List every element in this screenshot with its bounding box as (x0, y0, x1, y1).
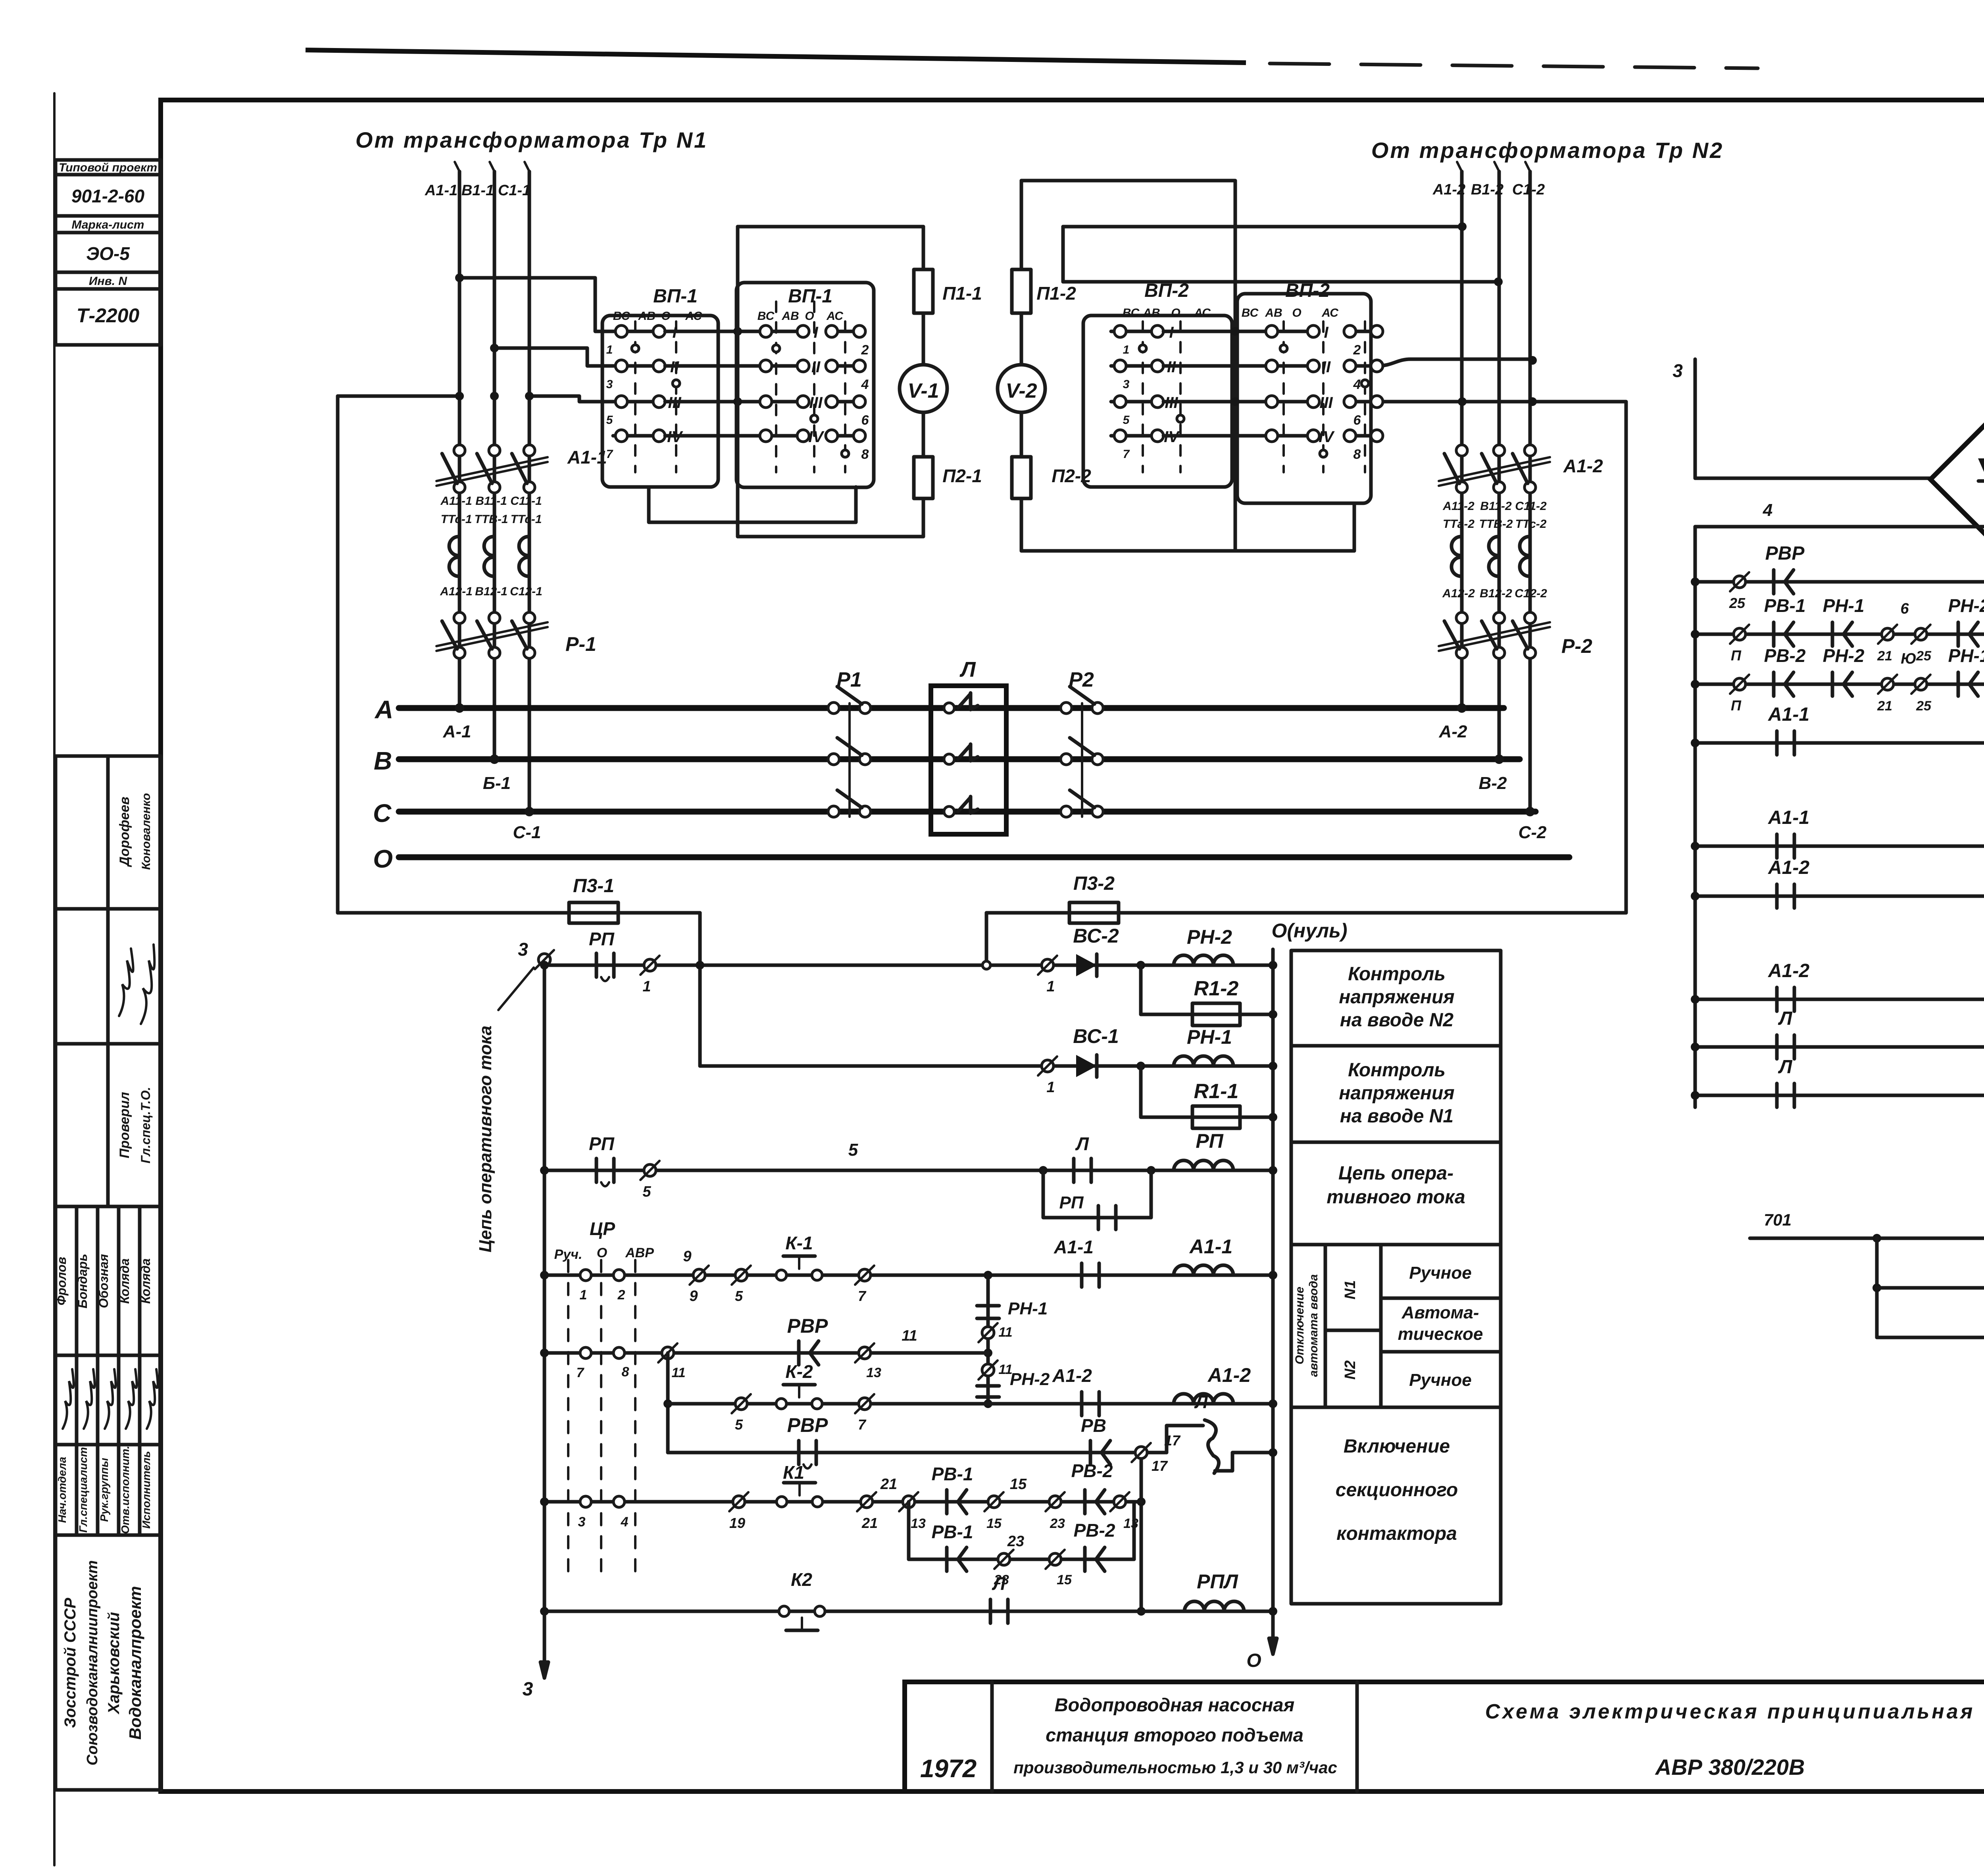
stamp signature (63, 1369, 74, 1429)
svg-text:В: В (374, 747, 392, 775)
rectifier bridge VS (1930, 422, 1984, 537)
disconnect R-1 pole C (524, 612, 535, 623)
svg-text:А1-2: А1-2 (1563, 456, 1603, 476)
svg-text:А1-2: А1-2 (1768, 960, 1809, 981)
svg-text:контактора: контактора (1336, 1523, 1457, 1544)
svg-text:3: 3 (578, 1514, 586, 1530)
svg-text:АВ: АВ (781, 310, 799, 323)
V-1 loop top wire (738, 225, 923, 229)
contactor L box (931, 686, 1006, 834)
disconnect R-2 linkage bar (1439, 622, 1550, 646)
svg-text:1: 1 (580, 1287, 587, 1303)
svg-text:РН-2: РН-2 (1948, 595, 1984, 616)
svg-text:РВР: РВР (1765, 543, 1805, 564)
svg-text:С12-2: С12-2 (1515, 587, 1547, 600)
testpoint 21 row8 (861, 1496, 873, 1508)
svg-text:Дорофеев: Дорофеев (117, 797, 132, 867)
svg-text:автомата ввода: автомата ввода (1307, 1274, 1320, 1377)
branch riser R1-1 (1139, 1066, 1143, 1117)
VP-2a deck row IV (1111, 434, 1157, 438)
svg-text:В1-1: В1-1 (461, 182, 494, 199)
testpoint 23 row8b (998, 1553, 1010, 1565)
P2 linkage (1081, 703, 1083, 817)
svg-text:АВ: АВ (1265, 306, 1282, 319)
feeder2 wire top ticks (1457, 162, 1462, 171)
svg-text:8: 8 (622, 1364, 629, 1380)
svg-text:Харьковский: Харьковский (105, 1612, 123, 1714)
subtable right divider 1 (1381, 1297, 1501, 1300)
disconnect R-1 linkage bar (436, 622, 548, 646)
svg-text:В11-2: В11-2 (1480, 500, 1512, 513)
svg-text:Обозная: Обозная (96, 1254, 111, 1308)
disconnect R-2 pole C (1525, 612, 1536, 623)
disconnect R-2 pole B (1494, 612, 1505, 623)
svg-text:Включение: Включение (1344, 1436, 1450, 1457)
svg-text:ВП-2: ВП-2 (1285, 280, 1330, 301)
svg-text:А12-2: А12-2 (1442, 587, 1475, 600)
svg-text:5: 5 (642, 1183, 651, 1200)
relay coil RN-2 (1174, 955, 1233, 965)
svg-text:А-2: А-2 (1439, 722, 1467, 741)
testpoint 19 (733, 1496, 745, 1508)
diode VS-2 (1076, 954, 1097, 976)
L solenoid out wire (1215, 1453, 1273, 1471)
stamp name column divider (117, 1206, 121, 1535)
svg-text:4: 4 (1763, 500, 1773, 520)
svg-text:Л: Л (1075, 1133, 1089, 1154)
svg-text:ТТа-2: ТТа-2 (1443, 518, 1475, 531)
svg-text:А12-1: А12-1 (440, 585, 473, 598)
stamp signature (126, 1369, 137, 1429)
rail O bottom arrow (1269, 1638, 1277, 1654)
feeder1 phase wire A1-1 (458, 171, 461, 708)
testpoint 11 row5 (662, 1347, 674, 1359)
svg-text:ЭО-5: ЭО-5 (86, 243, 130, 264)
testpoint 13 row5 (859, 1347, 871, 1359)
svg-text:Т-2200: Т-2200 (77, 304, 140, 327)
subtable N col divider (1379, 1245, 1383, 1407)
breaker A1-2 pole A (1456, 445, 1467, 456)
selector dashed columns (567, 1260, 569, 1582)
rail 3 left (543, 960, 546, 1678)
disconnect R-1 pole A (454, 612, 465, 623)
svg-text:Гл.специалист: Гл.специалист (77, 1447, 89, 1533)
svg-text:ЦР: ЦР (590, 1218, 615, 1239)
svg-text:6: 6 (861, 413, 869, 428)
feeder1 wire top ticks (455, 162, 459, 171)
contactor L contact (944, 703, 954, 713)
button K-2 (776, 1399, 786, 1409)
fuse P3-1 (569, 902, 618, 923)
svg-text:3: 3 (523, 1679, 533, 1700)
svg-text:Ручное: Ручное (1409, 1370, 1471, 1390)
contact RV-1 row8b (945, 1547, 949, 1571)
svg-text:В1-2: В1-2 (1471, 181, 1503, 198)
svg-text:7: 7 (858, 1288, 867, 1304)
bus O (399, 854, 1569, 860)
stamp name column divider (96, 1206, 100, 1535)
svg-text:Рук.группы: Рук.группы (98, 1458, 110, 1522)
svg-text:тивного тока: тивного тока (1327, 1187, 1465, 1208)
svg-text:на вводе N1: на вводе N1 (1340, 1106, 1453, 1127)
svg-text:Цепь оперативного тока: Цепь оперативного тока (476, 1026, 495, 1253)
V-1 loop bottom wire (738, 535, 923, 539)
breaker A1-2 pole B (1494, 445, 1505, 456)
svg-text:Л: Л (959, 658, 976, 681)
breaker A1-1 pole C (524, 445, 535, 456)
svg-text:ВП-1: ВП-1 (653, 286, 698, 307)
svg-text:7: 7 (1123, 448, 1130, 461)
svg-text:Отв.исполнит.: Отв.исполнит. (119, 1446, 131, 1534)
svg-text:I: I (813, 324, 818, 341)
RN branch vertical (986, 1275, 990, 1404)
bus C (399, 809, 1536, 815)
subtable right divider 2 (1381, 1350, 1501, 1354)
row8b wire (909, 1558, 1134, 1561)
svg-text:станция второго подъема: станция второго подъема (1046, 1724, 1303, 1745)
left table divider (56, 214, 161, 218)
svg-text:901-2-60: 901-2-60 (71, 186, 145, 206)
svg-text:2: 2 (861, 342, 869, 358)
svg-text:7: 7 (577, 1365, 585, 1380)
svg-text:ВП-1: ВП-1 (788, 286, 832, 307)
svg-text:Р-2: Р-2 (1561, 635, 1592, 657)
RV branch risers (907, 1502, 911, 1559)
svg-text:23: 23 (1007, 1533, 1024, 1550)
row3 wire (544, 1169, 1273, 1172)
row2b wire (1141, 1116, 1273, 1119)
svg-text:С-1: С-1 (513, 823, 541, 842)
svg-text:Контроль: Контроль (1348, 1060, 1446, 1081)
feeder2 loop step wire (1061, 227, 1065, 282)
svg-text:От трансформатора Тр N2: От трансформатора Тр N2 (1371, 138, 1724, 163)
svg-text:АВ: АВ (1142, 306, 1160, 319)
ladder row 7 wire A1-2 R2-2 RV-2 (1695, 895, 1984, 898)
VP-1b dashed columns (775, 302, 777, 472)
block VP-2b enclosure (1237, 294, 1371, 503)
P1 contact (828, 754, 839, 765)
svg-text:АВР: АВР (625, 1245, 654, 1260)
svg-text:13: 13 (1123, 1516, 1138, 1531)
svg-text:2: 2 (617, 1287, 625, 1303)
svg-text:25: 25 (1916, 648, 1932, 664)
svg-text:Зосстрой СССР: Зосстрой СССР (62, 1598, 79, 1728)
svg-text:25: 25 (1916, 698, 1932, 714)
svg-text:R1-1: R1-1 (1194, 1080, 1239, 1103)
breaker A1-1 pole A (454, 445, 465, 456)
button K1 (777, 1497, 787, 1507)
svg-text:РВ: РВ (1081, 1415, 1106, 1436)
svg-text:ВС: ВС (1123, 306, 1140, 319)
svg-text:IV: IV (808, 428, 825, 446)
svg-text:О: О (1246, 1650, 1261, 1671)
svg-text:ВС-2: ВС-2 (1073, 925, 1119, 947)
svg-text:тическое: тическое (1398, 1324, 1483, 1344)
svg-text:О: О (597, 1245, 607, 1260)
P3-1 drop wire (698, 913, 702, 1066)
disconnect R-1 pole B (489, 612, 500, 623)
VP-2a small column marks (1139, 345, 1146, 352)
svg-text:С: С (373, 799, 392, 827)
stamp divider (56, 1534, 161, 1537)
svg-text:В12-2: В12-2 (1480, 587, 1512, 600)
svg-text:R1-2: R1-2 (1194, 977, 1239, 1000)
svg-text:Л: Л (1778, 1056, 1793, 1077)
svg-text:Водопроводная насосная: Водопроводная насосная (1055, 1694, 1295, 1715)
svg-text:23: 23 (1050, 1516, 1065, 1531)
svg-text:3: 3 (1673, 360, 1683, 381)
fuse wire P3-1 (338, 911, 700, 915)
svg-text:А11-2: А11-2 (1442, 500, 1475, 513)
svg-text:1: 1 (1046, 978, 1055, 995)
svg-text:Л: Л (1778, 1008, 1793, 1029)
svg-text:О(нуль): О(нуль) (1272, 920, 1348, 942)
node B-2 (1494, 754, 1504, 764)
svg-text:6: 6 (1353, 413, 1361, 428)
operative tap left drop wire (336, 396, 340, 913)
testpoint 15 row8 (988, 1496, 1000, 1508)
svg-text:РВР: РВР (787, 1315, 828, 1337)
ladder row 9 wire A1-2 lamp LO-2 (1695, 998, 1984, 1001)
node C-1 (525, 807, 534, 816)
VP-2b deck row II (1163, 364, 1313, 368)
svg-text:Бондарь: Бондарь (75, 1254, 90, 1308)
alarm row2 wire (1877, 1286, 1984, 1290)
VP-1a deck row II (613, 364, 659, 368)
VP-1 bottom tie wire (649, 487, 856, 522)
svg-text:О: О (805, 310, 814, 323)
VP-1a dashed columns (634, 321, 636, 472)
svg-text:Гл.спец.Т.О.: Гл.спец.Т.О. (138, 1087, 153, 1164)
svg-text:V-1: V-1 (908, 379, 939, 402)
row5 wire (544, 1351, 988, 1355)
ladder row 11 wire L lamp LO (1695, 1094, 1984, 1097)
relay coil RP (1174, 1160, 1233, 1170)
svg-text:III: III (1319, 394, 1333, 412)
svg-text:П1-1: П1-1 (942, 283, 982, 304)
testpoint 13b row8 (1114, 1496, 1126, 1508)
svg-text:РП: РП (1059, 1193, 1084, 1212)
CT2 C phase (1520, 537, 1529, 556)
feeder2 phase wire C1-2 (1528, 171, 1532, 812)
svg-text:21: 21 (880, 1476, 897, 1493)
svg-text:ТТВ-1: ТТВ-1 (475, 513, 508, 526)
wire fuse P1-1 to top (922, 227, 925, 269)
net 3 stub wire (1694, 359, 1697, 478)
title divider 2 (1355, 1682, 1359, 1791)
left table divider (56, 173, 161, 177)
svg-text:Ручное: Ручное (1409, 1263, 1471, 1283)
svg-text:РН-2: РН-2 (1823, 645, 1865, 666)
svg-text:А: А (374, 695, 393, 724)
stamp divider (56, 1354, 161, 1357)
pointer line to rail 3 (498, 968, 534, 1010)
breaker A1-2 linkage bar (1439, 457, 1550, 481)
AC wire left to bridge (1695, 477, 1930, 480)
testpoint 7 row4 (859, 1269, 871, 1281)
voltmeter V-1 (900, 365, 947, 412)
CT A phase (449, 537, 459, 556)
operative tap wire top (338, 394, 459, 398)
svg-text:РН-1: РН-1 (1948, 645, 1984, 666)
svg-text:АВР 380/220В: АВР 380/220В (1655, 1755, 1805, 1780)
bus A (399, 705, 1504, 711)
svg-text:13: 13 (866, 1365, 881, 1380)
svg-text:АС: АС (685, 310, 702, 323)
svg-text:Автома-: Автома- (1401, 1303, 1479, 1322)
testpoint 7 row6 (859, 1398, 871, 1410)
feeder2 phase wire B1-2 (1498, 171, 1501, 759)
block VP-2a enclosure (1083, 316, 1232, 487)
VP-2 center vertical wire (1234, 227, 1237, 551)
VP-2a deck row II (1111, 364, 1157, 368)
contact RP row1 (595, 953, 598, 977)
svg-text:7: 7 (606, 448, 613, 461)
svg-text:С-2: С-2 (1519, 823, 1547, 842)
contact RP row3 (595, 1158, 598, 1182)
svg-text:А-1: А-1 (443, 722, 471, 741)
svg-text:РН-2: РН-2 (1187, 926, 1232, 948)
svg-text:РВР: РВР (787, 1414, 828, 1436)
contact A1-2 row6 (1080, 1392, 1084, 1416)
svg-text:9: 9 (683, 1248, 691, 1265)
tap to switch row III (529, 396, 613, 402)
svg-text:13: 13 (911, 1516, 926, 1531)
stamp divider (56, 1042, 161, 1046)
voltmeter V-2 (998, 365, 1045, 412)
svg-text:АВ: АВ (638, 310, 655, 323)
left table divider (56, 287, 161, 291)
svg-text:РПЛ: РПЛ (1197, 1570, 1238, 1593)
stamp name column divider (138, 1206, 142, 1535)
svg-text:С1-1: С1-1 (498, 182, 531, 199)
svg-text:А1-2: А1-2 (1052, 1365, 1092, 1386)
row2 wire (700, 1064, 1273, 1068)
selector circle 8 (613, 1347, 625, 1358)
testpoint 5 row3 (644, 1164, 656, 1176)
wire V-1 to P2-1 (922, 412, 925, 457)
annotation divider 4 (1291, 1406, 1501, 1409)
VP-1b deck row IV (665, 434, 803, 438)
svg-text:21: 21 (1877, 648, 1892, 664)
svg-text:3: 3 (606, 378, 613, 391)
svg-text:К1: К1 (783, 1462, 804, 1483)
svg-text:РВ-1: РВ-1 (932, 1464, 973, 1484)
svg-text:II: II (811, 358, 821, 376)
svg-text:П: П (1731, 697, 1742, 714)
RP parallel branch (1043, 1170, 1151, 1218)
stamp divider (56, 1443, 161, 1447)
svg-text:5: 5 (848, 1140, 858, 1160)
svg-text:4: 4 (1353, 377, 1361, 392)
annotation table box (1291, 951, 1501, 1604)
svg-text:7: 7 (858, 1416, 867, 1433)
svg-text:9: 9 (689, 1288, 698, 1305)
svg-text:П: П (1731, 647, 1742, 664)
node A-2 (1457, 703, 1467, 713)
breaker A1-2 pole C (1525, 445, 1536, 456)
svg-text:Контроль: Контроль (1348, 964, 1446, 985)
stamp signature (84, 1369, 95, 1429)
left paper edge line (53, 93, 56, 1865)
stamp divider (56, 907, 161, 911)
testpoint 13a row8 (903, 1496, 915, 1508)
testpoint 11 lower (982, 1364, 994, 1376)
contactor L contact (944, 806, 954, 817)
svg-text:Типовой проект: Типовой проект (59, 161, 157, 174)
bus B (399, 756, 1520, 762)
svg-text:РП: РП (589, 929, 615, 949)
fuse P3-2 (1069, 902, 1119, 923)
contact RV row7 (1089, 1441, 1092, 1464)
testpoint 17 (1135, 1447, 1147, 1458)
VP-2b dashed columns (1282, 321, 1285, 472)
fuse P1-2 (1012, 269, 1031, 313)
ladder row 1 wire РВР R1 РВ (1695, 580, 1984, 584)
rectifier feed tap wire from VP-2 row III (1377, 402, 1626, 913)
svg-text:К-2: К-2 (785, 1361, 813, 1382)
svg-text:6: 6 (1900, 600, 1909, 617)
P3-2 drop wire (985, 913, 988, 965)
svg-text:Водоканалпроект: Водоканалпроект (126, 1586, 144, 1739)
VP-2a deck row III (1111, 400, 1157, 404)
P1 linkage (848, 703, 851, 817)
contact RN-1 on branch (977, 1304, 999, 1308)
stamp signature (147, 1369, 158, 1429)
svg-text:701: 701 (1764, 1210, 1792, 1229)
node C-2 (1525, 807, 1535, 816)
svg-text:А1-2: А1-2 (1768, 857, 1809, 878)
tap to switch row II (494, 348, 613, 366)
svg-text:П3-2: П3-2 (1073, 873, 1115, 894)
annotation divider 1 (1291, 1044, 1501, 1048)
testpoint 1 row2 (1042, 1060, 1054, 1072)
svg-text:Коляда: Коляда (138, 1258, 153, 1304)
VP-1b deck row III (665, 400, 803, 404)
testpoint 15 row8b (1049, 1553, 1061, 1565)
svg-text:Исполнитель: Исполнитель (140, 1451, 152, 1529)
svg-text:РН-2: РН-2 (1010, 1370, 1050, 1389)
stamp outer box (56, 756, 161, 1790)
riser 17 down (1140, 1459, 1143, 1611)
contact A1-1 row4 (1080, 1263, 1084, 1287)
contact RV-2 row8 (1083, 1490, 1087, 1514)
annotation divider 3 (1291, 1243, 1501, 1247)
V-1 loop left wire (736, 227, 740, 537)
subtable rotated col divider (1324, 1245, 1327, 1407)
svg-text:Союзводоканалниипроект: Союзводоканалниипроект (84, 1560, 101, 1765)
relay coil RPL (1184, 1601, 1244, 1611)
VP-2b deck row I (1163, 330, 1313, 333)
svg-text:5: 5 (1123, 414, 1130, 427)
svg-text:Б-1: Б-1 (483, 773, 511, 793)
resistor R1-1 (1192, 1106, 1240, 1128)
VP-1a small column marks (632, 345, 639, 352)
breaker A1-1 pole B (489, 445, 500, 456)
VP-2 center junction marks (1231, 327, 1240, 336)
P1 contact (828, 806, 839, 817)
breaker A1-1 linkage bar (436, 457, 548, 481)
svg-text:О: О (373, 845, 393, 873)
alarm row3 wire 707 (1877, 1336, 1984, 1339)
fuse P1-1 (914, 269, 933, 313)
svg-text:РН-1: РН-1 (1187, 1026, 1232, 1048)
V-2 loop bottom wire (1021, 549, 1354, 553)
feeder2 phase wire A1-2 (1460, 171, 1464, 708)
testpoint 1b row1 (1042, 959, 1054, 971)
stamp signature (141, 945, 154, 1024)
stamp signature (105, 1369, 116, 1429)
